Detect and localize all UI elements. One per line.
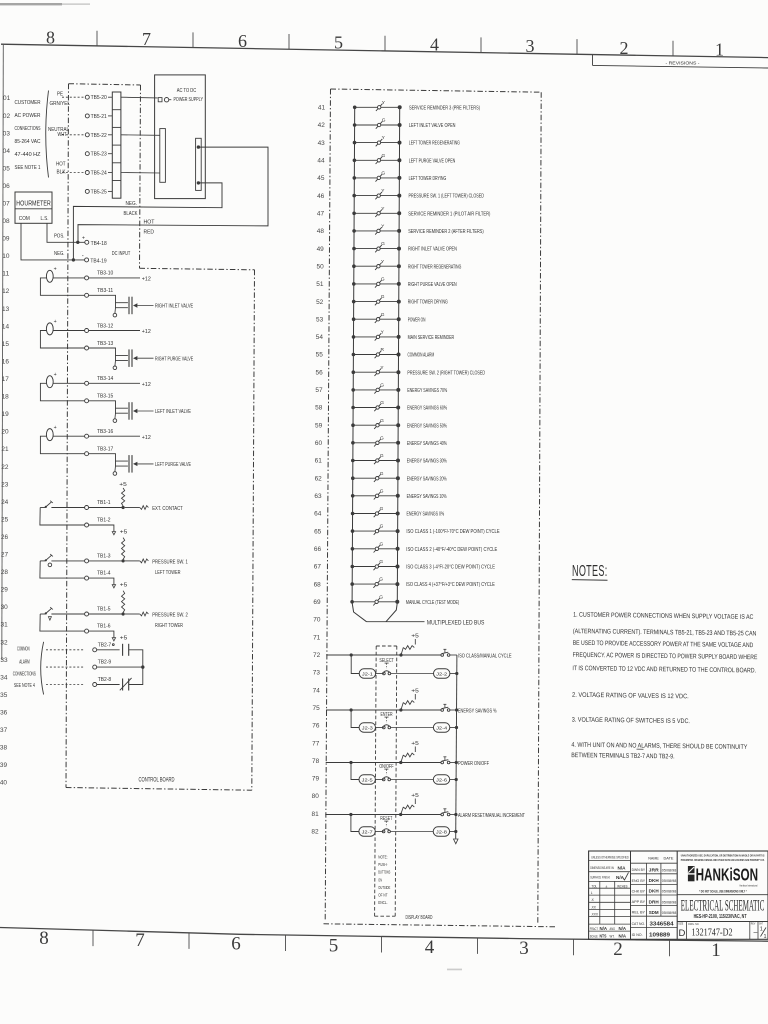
svg-text:N/A: N/A <box>600 926 608 931</box>
stub arrow and +5 label <box>112 638 115 641</box>
svg-text:53: 53 <box>316 317 324 323</box>
dashed wire NEUTRAL to TB5-22 <box>62 134 85 136</box>
svg-text:- REVISIONS -: - REVISIONS - <box>666 60 701 65</box>
AC to DC power supply box <box>155 75 206 199</box>
svg-text:APP BY: APP BY <box>632 899 646 904</box>
multiplexed LED bus wire <box>367 621 425 623</box>
svg-text:TB5-21: TB5-21 <box>91 114 107 120</box>
power supply AC plug <box>158 98 162 102</box>
wire node to signal resistor <box>125 613 140 615</box>
wire coil to TB3-16 <box>53 435 84 437</box>
svg-text:06: 06 <box>3 184 11 190</box>
terminal TB3-15 <box>85 399 89 403</box>
svg-text:NOTES:: NOTES: <box>572 563 608 580</box>
LED D63 ENERGY SAVINGS 10% <box>351 488 447 500</box>
svg-text:ISO CLASS/MANUAL CYCLE: ISO CLASS/MANUAL CYCLE <box>458 653 512 659</box>
svg-text:ENERGY SAVINGS 70%: ENERGY SAVINGS 70% <box>407 388 447 394</box>
svg-text:G: G <box>379 577 383 583</box>
svg-text:PRESSURE SW. 2 (RIGHT TOWER) C: PRESSURE SW. 2 (RIGHT TOWER) CLOSED <box>407 370 485 376</box>
svg-text:PRESSURE SW. 1 (LEFT TOWER) CL: PRESSURE SW. 1 (LEFT TOWER) CLOSED <box>409 194 485 200</box>
wire switch to bus ENTER <box>450 709 457 711</box>
svg-text:22: 22 <box>1 465 9 471</box>
svg-text:G: G <box>380 488 384 494</box>
svg-text:* DO NOT SCALE, USE DIMENSION: * DO NOT SCALE, USE DIMENSIONS ONLY * <box>699 889 747 893</box>
svg-text:SDM: SDM <box>649 910 659 915</box>
svg-text:NEG.: NEG. <box>126 201 138 207</box>
svg-text:82: 82 <box>311 830 319 836</box>
wire down to connector J2-1 <box>351 655 359 674</box>
switch contact for PRESSURE SW. 1 <box>40 560 45 562</box>
svg-text:OUTSIDE: OUTSIDE <box>378 885 390 891</box>
led/display board outline top edge <box>331 89 542 92</box>
svg-text:44: 44 <box>317 159 325 165</box>
valve label arrow LEFT PURGE VALVE <box>133 462 137 466</box>
pushbutton ENTER <box>376 727 384 729</box>
svg-text:71: 71 <box>313 635 321 641</box>
svg-text:48: 48 <box>317 229 325 235</box>
LED D58 ENERGY SAVINGS 60% <box>351 400 447 412</box>
svg-text:ENERGY SAVINGS 10%: ENERGY SAVINGS 10% <box>407 494 447 500</box>
svg-text:LEFT INLET VALVE: LEFT INLET VALVE <box>155 409 191 415</box>
wire coil to TB3-14 <box>53 382 84 384</box>
svg-text:11: 11 <box>2 272 10 278</box>
wire row SELECT signal line <box>326 654 441 656</box>
svg-text:TB4-18: TB4-18 <box>91 241 107 247</box>
control board outline right edge <box>252 270 255 790</box>
svg-text:G: G <box>380 435 384 441</box>
wire row RESET signal line <box>325 814 441 816</box>
svg-text:JRR: JRR <box>649 868 660 873</box>
svg-text:+: + <box>54 372 57 378</box>
solenoid valve RIGHT PURGE VALVE <box>128 349 130 367</box>
junction node EXT. CONTACT <box>122 506 125 509</box>
svg-text:57: 57 <box>315 388 323 394</box>
terminal TB2-7 <box>93 648 97 652</box>
svg-text:RIGHT TOWER: RIGHT TOWER <box>155 623 183 629</box>
svg-text:DC INPUT: DC INPUT <box>112 251 131 257</box>
terminal TB3-16 <box>85 434 89 438</box>
solenoid valve LEFT INLET VALVE <box>128 402 130 420</box>
terminal TB5-20 <box>85 95 89 99</box>
svg-text:ISO CLASS 1 (-100°F/-70°C DEW: ISO CLASS 1 (-100°F/-70°C DEW POINT) CYC… <box>406 529 499 535</box>
svg-text:COMMON ALARM: COMMON ALARM <box>408 353 435 359</box>
svg-text:DKH: DKH <box>649 889 660 894</box>
svg-text:52: 52 <box>316 300 324 306</box>
svg-text:+12: +12 <box>142 329 151 335</box>
svg-text:TB5-23: TB5-23 <box>91 152 107 158</box>
svg-text:AC POWER: AC POWER <box>15 113 41 119</box>
svg-text:G: G <box>381 171 385 177</box>
svg-text:29: 29 <box>1 588 9 594</box>
svg-text:D: D <box>678 928 685 939</box>
svg-text:G: G <box>382 153 386 159</box>
PE/NEUTRAL/HOT bracket <box>46 91 49 178</box>
svg-text:SERVICE REMINDER 2 (AFTER FILT: SERVICE REMINDER 2 (AFTER FILTERS) <box>408 229 484 235</box>
svg-text:05: 05 <box>3 166 11 172</box>
svg-text:BLACK: BLACK <box>124 211 138 217</box>
svg-text:72: 72 <box>313 653 321 659</box>
relay contact NC (common alarm) <box>122 679 124 691</box>
svg-text:SERVICE REMINDER 1 (PILOT AIR: SERVICE REMINDER 1 (PILOT AIR FILTER) <box>408 211 490 217</box>
svg-text:70: 70 <box>313 618 321 624</box>
LED D43 LEFT TOWER REGENERATING <box>353 135 460 147</box>
svg-text:39: 39 <box>0 763 8 769</box>
svg-text:RED: RED <box>144 230 155 236</box>
valve label arrow RIGHT PURGE VALVE <box>133 356 137 360</box>
LED D50 RIGHT TOWER REGENERATING <box>352 259 461 271</box>
wire switch to TB1-3 <box>51 560 84 562</box>
svg-text:54: 54 <box>316 335 324 341</box>
wire TB1-6 to +5 stub <box>89 631 114 637</box>
svg-text:J2-6: J2-6 <box>436 777 448 782</box>
bottom border zone tick 8/7 <box>92 930 94 946</box>
LED D47 SERVICE REMINDER 1 (PILOT AIR FILTER) <box>352 206 490 218</box>
valve vent port <box>114 308 117 314</box>
svg-text:43: 43 <box>318 141 326 147</box>
svg-text:+5: +5 <box>411 741 419 747</box>
wire hourmeter positive to TB4-18 <box>47 223 85 242</box>
relay contact NO (common alarm) <box>122 644 124 656</box>
svg-text:PUSH-: PUSH- <box>378 862 387 868</box>
LED D61 ENERGY SAVINGS 30% <box>351 453 447 465</box>
terminal TB3-11 <box>85 293 89 297</box>
wire hourmeter negative to TB4-19 <box>21 223 85 260</box>
wire node to signal resistor <box>125 507 140 509</box>
svg-text:26: 26 <box>1 535 9 541</box>
switch contact for PRESSURE SW. 2 <box>40 613 45 615</box>
svg-text:46: 46 <box>317 194 325 200</box>
svg-text:N/A: N/A <box>616 875 625 880</box>
svg-text:ALARM: ALARM <box>19 660 30 666</box>
svg-text:2: 2 <box>613 939 623 960</box>
series resistor PRESSURE SW. 2 <box>140 612 149 616</box>
power supply output node negative <box>197 181 200 184</box>
svg-text:TB3-10: TB3-10 <box>97 271 113 277</box>
svg-text:ENERGY SAVINGS 20%: ENERGY SAVINGS 20% <box>407 476 447 482</box>
wire TB3-15 to valve LEFT INLET VALVE <box>89 401 128 408</box>
svg-text:10: 10 <box>2 254 10 260</box>
svg-text:MANUAL CYCLE (TEST MODE): MANUAL CYCLE (TEST MODE) <box>406 600 459 606</box>
svg-text:Hankison International: Hankison International <box>740 883 758 887</box>
svg-text:01: 01 <box>3 96 11 102</box>
sheet bottom border line <box>0 928 768 942</box>
svg-text:+12: +12 <box>142 435 151 441</box>
svg-text:8: 8 <box>39 928 49 949</box>
wire switch to bus ON/OFF <box>450 762 456 764</box>
bottom border zone tick 7/6 <box>188 933 190 949</box>
pushbutton SELECT <box>376 673 384 675</box>
wire down to connector J2-3 <box>351 710 359 728</box>
dashed wire PE to TB5-20 <box>62 96 85 98</box>
svg-text:TB3-17: TB3-17 <box>97 447 113 453</box>
wire NC contact to common node <box>129 667 143 684</box>
series resistor PRESSURE SW. 1 <box>140 559 149 563</box>
bottom border zone tick 5/4 <box>381 937 383 953</box>
dashed wire to TB2-9 <box>46 666 85 668</box>
svg-text:DRH: DRH <box>649 899 660 904</box>
svg-text:+5: +5 <box>411 688 419 694</box>
wire TB3-12 to +12 <box>89 330 140 332</box>
svg-text:02: 02 <box>3 114 11 120</box>
wire J2-6 to bus <box>450 779 457 781</box>
svg-text:G: G <box>379 559 383 565</box>
connector J2-3 <box>359 723 375 732</box>
svg-text:J2-4: J2-4 <box>436 725 448 730</box>
svg-text:LEFT TOWER DRYING: LEFT TOWER DRYING <box>409 176 447 182</box>
svg-text:76: 76 <box>312 724 320 730</box>
top border zone tick 2/1 <box>672 41 674 56</box>
svg-text:8: 8 <box>46 28 55 48</box>
svg-text:61: 61 <box>315 459 323 465</box>
svg-text:UNLESS OTHERWISE SPECIFIED: UNLESS OTHERWISE SPECIFIED <box>591 855 629 860</box>
svg-text:J2-8: J2-8 <box>436 829 448 834</box>
svg-text:G: G <box>381 312 385 318</box>
svg-text:TB1-4: TB1-4 <box>97 571 111 577</box>
bottom border zone tick 4/3 <box>477 938 479 954</box>
svg-text:69: 69 <box>313 600 321 606</box>
svg-text:.XXX: .XXX <box>591 912 599 916</box>
svg-text:TB2-8: TB2-8 <box>98 677 112 683</box>
svg-text:38: 38 <box>0 746 8 752</box>
svg-text:24: 24 <box>1 500 9 506</box>
junction node PRESSURE SW. 2 <box>122 612 125 615</box>
svg-text:SHT: SHT <box>759 922 763 926</box>
svg-text:BETWEEN TERMINALS TB2-7 AND TB: BETWEEN TERMINALS TB2-7 AND TB2-9. <box>571 752 675 760</box>
wire coil loop to TB3-17 <box>40 436 84 454</box>
svg-text:32: 32 <box>0 640 8 646</box>
svg-text:37: 37 <box>0 728 8 734</box>
svg-text:SURFACE FINISH:: SURFACE FINISH: <box>590 876 610 880</box>
svg-text:1: 1 <box>764 934 767 940</box>
control board outline inner right edge upper <box>140 85 141 268</box>
svg-text:12: 12 <box>2 289 10 295</box>
svg-text:31: 31 <box>1 623 9 629</box>
svg-text:13: 13 <box>2 307 10 313</box>
svg-text:G: G <box>381 241 385 247</box>
svg-text:G: G <box>380 471 384 477</box>
svg-text:.XX: .XX <box>591 905 597 909</box>
svg-text:109889: 109889 <box>649 933 670 939</box>
sheet top border line <box>1 44 768 57</box>
notes paragraph <box>571 612 758 762</box>
switch contact ISO CLASS/MANUAL CYCLE <box>441 654 444 657</box>
wire TB2-7 to NO contact <box>97 649 120 651</box>
svg-text:30: 30 <box>1 605 9 611</box>
connector J2-4 <box>433 723 449 732</box>
svg-text:33: 33 <box>0 658 8 664</box>
svg-text:DATE: DATE <box>664 856 674 861</box>
svg-text:40: 40 <box>0 781 8 787</box>
svg-text:G: G <box>381 294 385 300</box>
wire coil loop to TB3-13 <box>40 331 84 349</box>
LED D41 SERVICE REMINDER 3 (PRE FILTERS) <box>353 100 480 112</box>
terminal TB5-24 <box>85 171 89 175</box>
top border zone tick 7/6 <box>192 32 194 47</box>
bottom border zone tick 2/1 <box>669 940 671 956</box>
svg-text:J2-1: J2-1 <box>362 671 374 676</box>
svg-text:ENERGY SAVINGS 40%: ENERGY SAVINGS 40% <box>407 441 447 447</box>
svg-text:TB1-3: TB1-3 <box>97 554 111 560</box>
svg-text:+12: +12 <box>142 382 151 388</box>
bus junction J2-8 <box>454 830 457 833</box>
svg-text:HOT: HOT <box>144 220 156 226</box>
svg-text:G: G <box>380 383 384 389</box>
svg-text:ANG: ANG <box>610 927 616 931</box>
connector J2-8 <box>433 827 449 836</box>
svg-text:NEG.: NEG. <box>54 251 65 257</box>
svg-text:TB5-20: TB5-20 <box>91 95 107 101</box>
wire switch loop to TB1-4 <box>40 561 85 578</box>
LED D59 ENERGY SAVINGS 50% <box>351 418 447 430</box>
LED D54 MAIN SERVICE REMINDER <box>352 330 455 342</box>
bus junction row RESET <box>454 813 457 816</box>
svg-text:74: 74 <box>313 688 321 694</box>
svg-text:ENG BY: ENG BY <box>632 878 646 883</box>
svg-text:03: 03 <box>3 131 11 137</box>
LED D46 PRESSURE SW. 1 (LEFT TOWER) CLOSED <box>352 188 484 200</box>
wire TB3-13 to valve RIGHT PURGE VALVE <box>89 348 128 355</box>
valve vent port <box>114 413 117 419</box>
LED D56 PRESSURE SW. 2 (RIGHT TOWER) CLOSED <box>352 365 486 377</box>
svg-text:55: 55 <box>316 353 324 359</box>
svg-text:81: 81 <box>312 812 320 818</box>
terminal TB1-2 <box>85 523 89 527</box>
svg-text:HANKiSON: HANKiSON <box>696 865 759 885</box>
size/dwg/rev row <box>678 922 766 941</box>
svg-text:7: 7 <box>135 930 145 951</box>
svg-text:6: 6 <box>238 31 247 51</box>
svg-text:NAME: NAME <box>648 856 659 861</box>
junction node left RESET <box>349 813 352 816</box>
svg-text:N/A: N/A <box>619 926 627 931</box>
svg-text:G: G <box>380 400 384 406</box>
svg-text:PRESSURE SW. 1: PRESSURE SW. 1 <box>152 559 188 565</box>
svg-text:SIZE: SIZE <box>678 922 683 926</box>
svg-text:SCALE: SCALE <box>590 934 598 938</box>
pushbutton dashed enclosure <box>376 645 397 647</box>
svg-text:POWER SUPPLY: POWER SUPPLY <box>173 97 203 103</box>
LED matrix left bus <box>352 107 366 621</box>
svg-text:LEFT PURGE VALVE: LEFT PURGE VALVE <box>155 462 191 468</box>
wire button to connector J2-6 <box>391 779 434 781</box>
wire node to signal resistor <box>125 560 140 562</box>
LED D62 ENERGY SAVINGS 20% <box>351 471 447 483</box>
title divider <box>677 894 768 896</box>
wire TB3-10 to +12 <box>89 277 140 279</box>
svg-text:TB5-22: TB5-22 <box>91 133 107 139</box>
svg-text:20: 20 <box>1 430 9 436</box>
wire switch to TB1-1 <box>51 507 84 509</box>
svg-text:TB3-15: TB3-15 <box>97 394 113 400</box>
svg-text:3346584: 3346584 <box>650 921 675 927</box>
power supply output terminal block <box>196 138 202 190</box>
LED D55 COMMON ALARM <box>352 347 435 359</box>
svg-text:ON/OFF: ON/OFF <box>379 764 393 770</box>
svg-text:REV: REV <box>751 922 756 926</box>
terminal TB1-4 <box>85 576 89 580</box>
control board outline top edge <box>69 84 141 85</box>
svg-text:G: G <box>379 594 383 600</box>
svg-text:G: G <box>380 524 384 530</box>
svg-text:POS.: POS. <box>54 233 65 239</box>
svg-text:DIMENSIONS ARE IN:: DIMENSIONS ARE IN: <box>590 866 614 870</box>
wire J2-2 to bus <box>450 673 457 675</box>
common alarm bracket <box>41 642 44 695</box>
top border zone tick 8/7 <box>96 31 98 46</box>
svg-text:DWN BY: DWN BY <box>632 867 646 872</box>
svg-text:+12: +12 <box>142 277 151 283</box>
svg-text:63: 63 <box>314 494 322 500</box>
svg-text:+5: +5 <box>411 633 419 639</box>
terminal TB4-18 <box>85 240 89 244</box>
svg-text:56: 56 <box>316 370 324 376</box>
switch contact for EXT. CONTACT <box>40 507 45 509</box>
relay coil for LEFT INLET VALVE <box>46 376 53 388</box>
valve label arrow LEFT INLET VALVE <box>133 409 137 413</box>
wire TB3-16 to +12 <box>89 435 140 437</box>
wire coil loop to TB3-11 <box>40 278 84 295</box>
pushbutton RESET <box>375 831 383 833</box>
svg-text:RIGHT INLET VALVE: RIGHT INLET VALVE <box>155 304 193 310</box>
svg-text:TB1-1: TB1-1 <box>97 500 111 506</box>
terminal TB4-19 <box>85 258 89 262</box>
junction node common alarm <box>141 665 144 668</box>
svg-text:OF NT: OF NT <box>378 893 387 899</box>
relay coil for RIGHT INLET VALVE <box>46 270 53 282</box>
svg-text:23: 23 <box>1 482 9 488</box>
svg-text:59: 59 <box>315 423 323 429</box>
svg-text:09: 09 <box>2 237 10 243</box>
terminal TB1-3 <box>85 559 89 563</box>
junction node TB4-19 <box>72 258 75 261</box>
switch contact POWER ON/OFF <box>441 761 444 764</box>
svg-text:36: 36 <box>0 711 8 717</box>
wire coil to TB3-10 <box>53 277 84 279</box>
svg-text:BUTTONS: BUTTONS <box>378 870 390 876</box>
junction node PRESSURE SW. 1 <box>122 559 125 562</box>
wire switch to bus SELECT <box>450 654 457 656</box>
svg-text:TB4-19: TB4-19 <box>90 258 106 264</box>
svg-text:ENERGY SAVINGS 50%: ENERGY SAVINGS 50% <box>407 423 447 429</box>
svg-text:42: 42 <box>318 123 326 129</box>
svg-text:PE: PE <box>57 91 63 97</box>
dashed wire to TB2-7 <box>46 649 85 651</box>
svg-text:LEFT PURGE VALVE OPEN: LEFT PURGE VALVE OPEN <box>409 158 456 164</box>
svg-text:ON: ON <box>378 877 382 883</box>
svg-text:-: - <box>82 254 84 260</box>
svg-text:05/08/98: 05/08/98 <box>662 890 677 894</box>
svg-text:+5: +5 <box>120 583 128 589</box>
wire TB1-3 to pull-up node <box>89 560 122 562</box>
svg-text:78: 78 <box>312 759 320 765</box>
svg-text:HOURMETER: HOURMETER <box>16 199 51 208</box>
svg-text:65: 65 <box>314 529 322 535</box>
valve label arrow RIGHT INLET VALVE <box>133 303 137 307</box>
svg-text:CONNECTIONS: CONNECTIONS <box>13 671 36 677</box>
wire TB3-17 to valve LEFT PURGE VALVE <box>89 454 128 461</box>
wire coil to TB3-12 <box>53 330 84 332</box>
svg-text:RIGHT PURGE VALVE OPEN: RIGHT PURGE VALVE OPEN <box>408 282 457 288</box>
title block Hankison section <box>681 854 765 863</box>
wire NEG BLACK from power supply <box>73 183 222 260</box>
connector J2-5 <box>359 775 375 784</box>
terminal TB2-9 <box>93 665 97 669</box>
bottom border zone tick 3/2 <box>573 939 575 955</box>
svg-text:CHK BY: CHK BY <box>632 888 646 893</box>
wire TB5-22 to power supply input <box>121 134 160 137</box>
connector J2-6 <box>433 775 449 784</box>
wire J2-4 to bus <box>450 727 457 729</box>
